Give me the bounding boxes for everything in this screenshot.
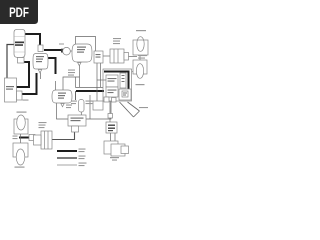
svg-text:PDF: PDF <box>9 4 29 20</box>
